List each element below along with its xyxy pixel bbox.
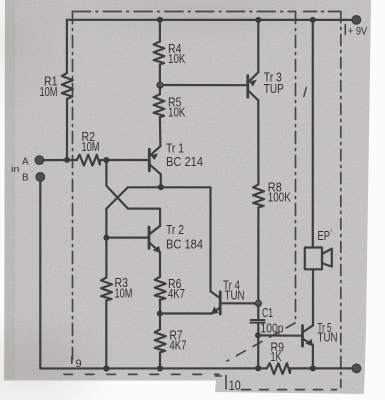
dashed diagonal cut between box 9 and box 10 <box>227 323 295 361</box>
resistor R8 <box>253 184 264 207</box>
wire: input B down and along ground rail <box>40 177 267 369</box>
svg-text:+ 9V: + 9V <box>348 26 368 38</box>
svg-text:10K: 10K <box>168 52 186 66</box>
terminal A <box>35 156 44 165</box>
dashed box 9 bottom edge <box>64 373 219 375</box>
wire: R5 bottom to Tr1 collector <box>159 117 162 146</box>
transistor Tr4 (TUN NPN, facing left) <box>211 291 259 314</box>
wire: R6 bottom to junction <box>159 300 161 314</box>
corner tick mark for box 9 label <box>71 357 73 363</box>
resistor R2 <box>77 155 100 166</box>
svg-text:A: A <box>22 157 29 168</box>
svg-text:9: 9 <box>76 358 82 370</box>
svg-text:1K: 1K <box>271 350 282 364</box>
dashed box 9 right edge <box>295 12 297 322</box>
transistor Tr5 (TUN NPN) <box>303 325 314 346</box>
node: Tr2 base / R3 junction <box>103 235 109 241</box>
resistor R9 <box>267 363 290 374</box>
paper shading <box>0 308 120 400</box>
wire: R4 column from top rail <box>159 20 161 42</box>
terminal output bottom right <box>352 364 361 373</box>
node: ground rail Tr5 emitter junction <box>310 365 316 371</box>
wire: Tr5 base wire <box>258 334 301 337</box>
svg-text:': ' <box>331 228 333 238</box>
wire: R7 bottom to ground rail <box>159 352 161 368</box>
dashed box 10 right edge <box>340 12 342 388</box>
wire: cross-coupling line from R2 node down to Tr2 collector <box>106 160 160 234</box>
svg-text:10M: 10M <box>115 287 133 301</box>
svg-text:10M: 10M <box>82 140 100 154</box>
wire: Tr5 emitter to ground rail <box>312 345 314 368</box>
wire: R9 right to output terminal <box>290 367 356 369</box>
wire: earphone top to supply rail <box>312 20 314 248</box>
node: R2 / Tr1 base junction <box>103 157 109 163</box>
wire: Tr3 collector down to R8 <box>257 100 259 184</box>
resistor R1 <box>62 73 73 99</box>
svg-text:BC 214: BC 214 <box>166 155 203 169</box>
resistor R3 <box>101 278 112 301</box>
resistor R4 <box>154 42 165 65</box>
wire: R4/R5 junction to Tr3 base <box>160 84 247 86</box>
resistor R5 <box>154 94 165 117</box>
dashed box 10 top edge <box>304 11 341 13</box>
svg-text:TUN: TUN <box>225 289 245 303</box>
transistor Tr3 (TUP PNP) <box>248 20 258 100</box>
svg-text:C1: C1 <box>262 306 273 320</box>
tick mark near +9V <box>344 25 346 35</box>
wire: R1 bottom to input node A <box>66 99 68 160</box>
wire: input A to R2 <box>39 159 76 161</box>
svg-text:TUP: TUP <box>264 82 284 96</box>
svg-text:Tr 1: Tr 1 <box>166 142 184 156</box>
terminal B <box>36 173 45 182</box>
svg-text:10K: 10K <box>168 106 186 120</box>
transistor Tr2 (BC184 NPN) <box>149 226 161 277</box>
wire: emitter node to Tr4 collector riser <box>161 187 211 291</box>
node: top rail / R4 junction <box>157 17 163 23</box>
wire: left column top (to R1) <box>66 20 68 73</box>
node: top rail / Tr3 emitter junction <box>255 17 261 23</box>
svg-text:4K7: 4K7 <box>170 339 187 353</box>
wire: R6/R7 junction to Tr4 emitter <box>160 312 212 314</box>
node: ground rail R3 junction <box>103 365 109 371</box>
wire: cross-coupling line from emitter node down to Tr2 base and R3 <box>106 187 160 277</box>
svg-text:4K7: 4K7 <box>168 287 185 301</box>
node: R6/R7 junction <box>157 311 163 317</box>
wire: Tr5 collector up to earphone <box>312 269 314 325</box>
wire: R2 to Tr1 base <box>100 159 148 161</box>
node: C1 / Tr5 base junction <box>255 332 261 338</box>
svg-text:in: in <box>11 164 20 175</box>
node: ground rail C1 junction <box>255 365 261 371</box>
svg-text:10: 10 <box>229 378 241 393</box>
svg-text:BC 184: BC 184 <box>166 238 203 252</box>
wire: junction to R5 <box>159 85 161 94</box>
svg-text:10M: 10M <box>40 85 58 99</box>
dashed box 9 left edge <box>72 12 74 364</box>
wire: junction to R7 <box>159 314 161 330</box>
earphone EP symbol <box>305 248 332 270</box>
wire: top supply rail <box>67 19 357 21</box>
svg-text:100p: 100p <box>261 322 284 336</box>
node: A wire / R1 junction <box>64 157 70 163</box>
svg-text:100K: 100K <box>268 191 291 205</box>
node: R4/R5 junction ring <box>157 83 162 88</box>
dashed box 10 bottom edge <box>242 389 337 391</box>
node: top rail / earphone junction <box>310 17 316 23</box>
wire: Tr1 emitter junction dot node <box>158 184 164 190</box>
wire: R8 bottom to Tr4 base junction <box>257 207 259 303</box>
node: Tr4 base / R8 / C1 junction <box>256 301 261 306</box>
wire: C1 bottom through Tr5 base tap to ground rail <box>257 323 259 369</box>
terminal +9V <box>352 16 361 25</box>
dashed box 9 top edge <box>73 11 296 13</box>
wire: R4 bottom to junction <box>159 65 161 86</box>
capacitor C1 <box>251 320 265 323</box>
svg-text:EP: EP <box>318 229 331 243</box>
wire: R3 bottom to ground rail <box>105 301 107 369</box>
resistor R7 <box>155 329 166 352</box>
wire: Tr2 base wire <box>106 237 147 239</box>
svg-text:Tr 2: Tr 2 <box>166 223 184 237</box>
resistor R6 <box>155 277 166 300</box>
wire: junction down to C1 <box>257 303 259 319</box>
node: ground rail R7 junction <box>157 365 163 371</box>
transistor Tr1 (BC214 PNP) <box>149 146 161 187</box>
svg-text:TUN: TUN <box>318 331 338 345</box>
stray slash mark on box 10 left <box>304 88 307 97</box>
corner tick mark for box 10 label <box>216 376 227 389</box>
svg-text:B: B <box>22 172 29 183</box>
